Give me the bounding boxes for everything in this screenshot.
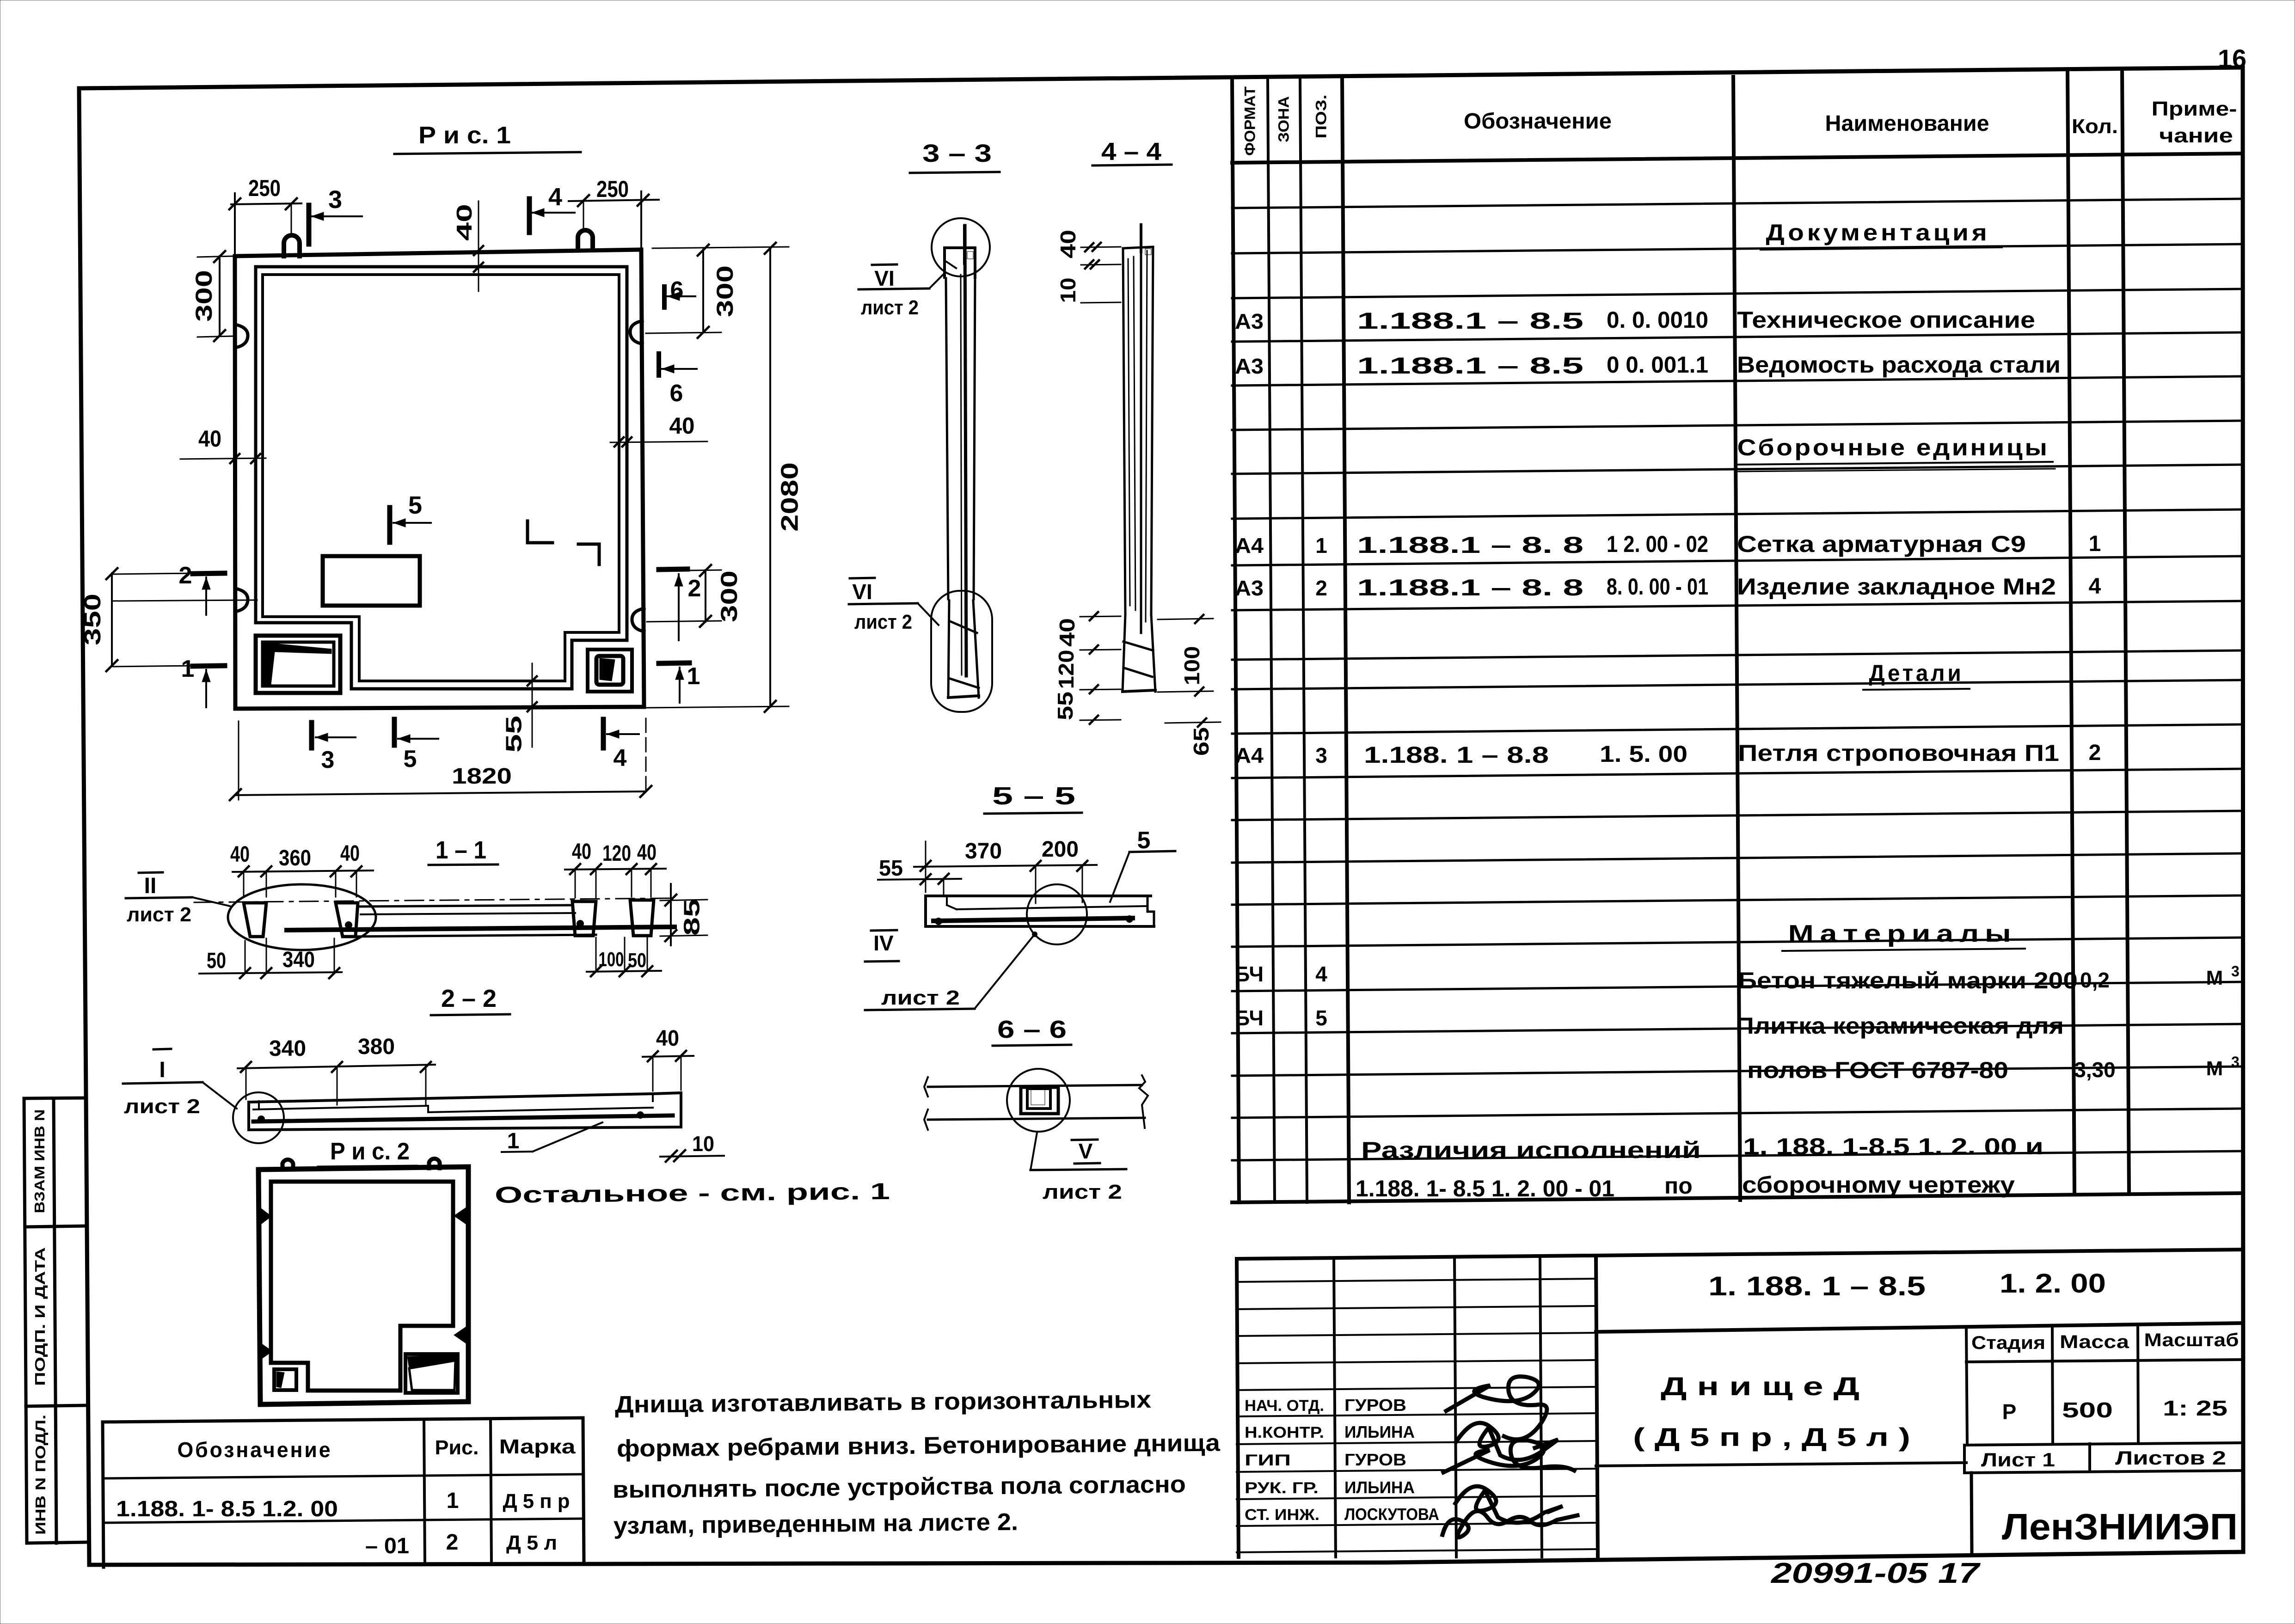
section 1-1 dims bottom-left 50 340 bbox=[199, 938, 342, 978]
slab inner wall line (wall side) bbox=[256, 267, 627, 689]
section 2-2 label 1 with leader bbox=[502, 1122, 602, 1153]
row Техническое описание bbox=[1235, 307, 2035, 334]
section 3-3 bottom boot bbox=[948, 601, 979, 698]
svg-text:500: 500 bbox=[2062, 1398, 2113, 1422]
svg-text:4 – 4: 4 – 4 bbox=[1101, 138, 1161, 165]
svg-text:лист 2: лист 2 bbox=[124, 1095, 200, 1118]
svg-text:3: 3 bbox=[2231, 1054, 2240, 1070]
section 5-5 rebar dots bbox=[935, 918, 942, 925]
note text line 2 bbox=[617, 1429, 1221, 1462]
wall notch right upper bbox=[630, 321, 642, 344]
svg-text:5: 5 bbox=[404, 746, 417, 772]
section 4-4 dim 40 bottom bbox=[1055, 612, 1121, 654]
svg-text:ФОРМАТ: ФОРМАТ bbox=[1241, 86, 1258, 156]
svg-text:ЛОСКУТОВА: ЛОСКУТОВА bbox=[1344, 1505, 1439, 1524]
svg-text:360: 360 bbox=[279, 846, 311, 870]
section 3-3 top rebar bbox=[963, 226, 966, 264]
svg-text:65: 65 bbox=[1189, 727, 1213, 756]
svg-text:Петля строповочная П1: Петля строповочная П1 bbox=[1738, 740, 2059, 766]
section 1-1 title bbox=[429, 836, 498, 865]
svg-text:БЧ: БЧ bbox=[1235, 962, 1264, 986]
section 5-5 slab profile bbox=[926, 896, 1154, 926]
svg-text:Остальное - см. рис. 1: Остальное - см. рис. 1 bbox=[495, 1178, 890, 1208]
svg-text:1.188.1 – 8. 8: 1.188.1 – 8. 8 bbox=[1357, 532, 1583, 558]
svg-text:1: 1 bbox=[181, 656, 195, 682]
Рис.2 note Остальное см. рис.1 bbox=[495, 1178, 890, 1208]
section 1-1 dim 85 right bbox=[660, 884, 707, 945]
dimension 300 right-upper bbox=[646, 245, 738, 338]
svg-text:лист 2: лист 2 bbox=[854, 611, 912, 633]
section heading Материалы bbox=[1782, 920, 2025, 951]
svg-text:1: 1 bbox=[507, 1129, 520, 1153]
section 3-3 title bbox=[910, 140, 1000, 173]
svg-text:40: 40 bbox=[198, 426, 221, 452]
svg-text:Р и с. 2: Р и с. 2 bbox=[330, 1138, 410, 1165]
section 6-6 detail circle V bbox=[1007, 1069, 1070, 1132]
svg-text:М: М bbox=[2206, 1057, 2223, 1080]
dimension 40 left wall bbox=[180, 426, 266, 463]
row Плитка керамическая для bbox=[1235, 1006, 2064, 1039]
section 6-6 label V лист 2 bbox=[1031, 1133, 1126, 1203]
Рис.2 opening bottom-right bbox=[405, 1354, 458, 1393]
section heading Сборочные единицы bbox=[1736, 435, 2055, 472]
section marker 1 right bbox=[659, 663, 700, 703]
svg-text:ГУРОВ: ГУРОВ bbox=[1344, 1450, 1406, 1469]
svg-text:Приме-: Приме- bbox=[2152, 98, 2237, 120]
section 4-4 title bbox=[1092, 138, 1172, 165]
svg-text:Сборочные единицы: Сборочные единицы bbox=[1737, 435, 2050, 460]
Рис.2 title bbox=[318, 1138, 417, 1167]
section marker 3 bottom bbox=[312, 723, 356, 773]
section heading Детали bbox=[1863, 660, 1970, 690]
dimension 40 right wall bbox=[610, 413, 707, 447]
title block Лист 1 / Листов 2 bbox=[1964, 1443, 2243, 1473]
svg-text:55: 55 bbox=[1053, 692, 1077, 720]
svg-text:1. 188. 1 – 8.5: 1. 188. 1 – 8.5 bbox=[1708, 1271, 1926, 1301]
Рис.2 wall mark right-upper bbox=[454, 1207, 467, 1225]
svg-text:лист 2: лист 2 bbox=[881, 987, 960, 1009]
title block outline bbox=[1237, 1250, 2243, 1557]
title block Стадия Масса Масштаб bbox=[1966, 1327, 2243, 1445]
svg-text:Ведомость расхода стали: Ведомость расхода стали bbox=[1737, 352, 2061, 378]
section 1-1 right wall rib bbox=[572, 901, 596, 936]
svg-text:ПОЗ.: ПОЗ. bbox=[1313, 95, 1329, 139]
section marker 4 top bbox=[529, 183, 575, 233]
svg-text:ЛенЗНИИЭП: ЛенЗНИИЭП bbox=[2002, 1506, 2238, 1547]
svg-text:250: 250 bbox=[596, 176, 629, 202]
svg-text:ИЛЬИНА: ИЛЬИНА bbox=[1344, 1478, 1415, 1497]
svg-text:Масса: Масса bbox=[2060, 1332, 2129, 1352]
section 1-1 dims top-right 40 120 40 bbox=[565, 840, 666, 898]
svg-text:6: 6 bbox=[670, 380, 683, 407]
svg-text:ГИП: ГИП bbox=[1245, 1452, 1291, 1469]
svg-text:Марка: Марка bbox=[499, 1435, 576, 1458]
margin strip box Взам.инв.N bbox=[24, 1098, 85, 1543]
section 4-4 dim 100 right bbox=[1158, 615, 1213, 696]
section 2-2 mesh line bbox=[253, 1115, 673, 1121]
section 1-1 second rib bbox=[336, 903, 358, 937]
section 4-4 dim 65 right bbox=[1165, 718, 1221, 756]
tile zone corner mark 1 bbox=[528, 521, 552, 543]
svg-text:1 2. 00 - 02: 1 2. 00 - 02 bbox=[1607, 531, 1708, 557]
row Изделие закладное Мн2 bbox=[1235, 574, 2101, 601]
svg-text:10: 10 bbox=[1056, 278, 1080, 303]
svg-text:лист 2: лист 2 bbox=[1043, 1181, 1122, 1203]
svg-text:1.188. 1 – 8.8: 1.188. 1 – 8.8 bbox=[1364, 742, 1549, 768]
section heading Документация bbox=[1761, 220, 2002, 250]
svg-text:1.188.1 – 8.5: 1.188.1 – 8.5 bbox=[1357, 353, 1583, 379]
section 5-5 title bbox=[984, 782, 1082, 814]
svg-text:РУК. ГР.: РУК. ГР. bbox=[1245, 1479, 1319, 1497]
svg-text:55: 55 bbox=[879, 856, 903, 881]
section marker 3 top bbox=[309, 186, 362, 244]
dimension 40 top-center bbox=[452, 201, 483, 291]
row Бетон тяжелый марки 200 bbox=[1235, 962, 2240, 993]
svg-text:Рис.: Рис. bbox=[435, 1436, 479, 1459]
svg-text:2: 2 bbox=[446, 1530, 459, 1555]
svg-text:Р и с. 1: Р и с. 1 bbox=[418, 122, 511, 149]
Рис.2 inner outline with steps bbox=[271, 1182, 453, 1391]
section 4-4 dim 40 top bbox=[1056, 230, 1121, 258]
svg-text:1.188.1 – 8.5: 1.188.1 – 8.5 bbox=[1357, 308, 1583, 334]
svg-text:формах ребрами вниз. Бетон: формах ребрами вниз. Бетонирование днища bbox=[617, 1429, 1221, 1462]
svg-text:1. 2. 00: 1. 2. 00 bbox=[2000, 1269, 2106, 1299]
svg-text:сборочному чертежу: сборочному чертежу bbox=[1742, 1172, 2015, 1198]
svg-text:5 – 5: 5 – 5 bbox=[992, 782, 1075, 810]
section 5-5 label IV лист 2 bbox=[865, 930, 1037, 1010]
svg-text:10: 10 bbox=[692, 1132, 714, 1156]
svg-text:1 – 1: 1 – 1 bbox=[436, 836, 486, 864]
svg-text:2 – 2: 2 – 2 bbox=[441, 985, 497, 1012]
tile zone corner mark 2 bbox=[578, 544, 599, 564]
opening bottom-left inner bbox=[263, 642, 334, 686]
svg-text:А3: А3 bbox=[1235, 354, 1264, 378]
svg-text:3: 3 bbox=[2231, 963, 2240, 980]
section 1-1 label II лист 2 bbox=[126, 872, 230, 926]
section 3-3 top cap bbox=[945, 248, 975, 277]
svg-text:300: 300 bbox=[712, 265, 738, 317]
svg-text:300: 300 bbox=[716, 570, 742, 622]
Рис.2 wall mark right-lower bbox=[454, 1326, 467, 1344]
svg-text:А3: А3 bbox=[1235, 576, 1264, 600]
svg-text:2080: 2080 bbox=[777, 462, 804, 532]
section marker 5 middle bbox=[390, 491, 431, 542]
svg-text:выполнять после устройства: выполнять после устройства пола согласно bbox=[613, 1471, 1186, 1503]
section 1-1 rebar dots bbox=[345, 921, 352, 929]
svg-text:5: 5 bbox=[408, 491, 422, 519]
section 6-6 embedded item МН2 bbox=[1021, 1087, 1058, 1114]
svg-text:А4: А4 bbox=[1235, 743, 1264, 767]
section 3-3 top detail circle bbox=[932, 218, 990, 276]
dimension 55 bottom bbox=[502, 663, 537, 753]
svg-text:0. 0. 0010: 0. 0. 0010 bbox=[1607, 307, 1708, 333]
opening bottom-right inner bbox=[596, 656, 623, 685]
svg-text:4: 4 bbox=[614, 745, 627, 772]
dimension 250 top-left bbox=[229, 175, 301, 255]
section 2-2 label I лист 2 bbox=[123, 1049, 237, 1118]
svg-text:40: 40 bbox=[669, 413, 695, 439]
svg-text:200: 200 bbox=[1042, 837, 1079, 862]
svg-text:1: 1 bbox=[447, 1489, 459, 1513]
svg-text:350: 350 bbox=[80, 594, 105, 645]
opening bottom-left outer bbox=[256, 636, 340, 693]
section 3-3 label VI upper bbox=[859, 264, 944, 319]
Рис.1 title bbox=[394, 122, 581, 154]
svg-text:1.188. 1- 8.5 1.2. 00: 1.188. 1- 8.5 1.2. 00 bbox=[116, 1497, 338, 1521]
section 4-4 top rod bbox=[1140, 225, 1142, 252]
Рис.2 outer outline bbox=[258, 1167, 468, 1404]
section 2-2 slab outline bbox=[249, 1093, 681, 1130]
section 4-4 dim 120 bottom bbox=[1054, 650, 1121, 694]
svg-text:2: 2 bbox=[179, 562, 192, 589]
slab outer outline bbox=[235, 250, 644, 709]
svg-text:Обозначение: Обозначение bbox=[178, 1438, 332, 1462]
title block organization ЛенЗНИИЭП bbox=[1971, 1473, 2238, 1552]
svg-text:Документация: Документация bbox=[1766, 220, 1990, 245]
svg-text:ВЗАМ ИНВ N: ВЗАМ ИНВ N bbox=[31, 1109, 48, 1213]
title block left grid bbox=[1237, 1259, 1596, 1557]
svg-text:I: I bbox=[159, 1058, 165, 1082]
note row по сборочному чертежу bbox=[1356, 1172, 2015, 1201]
svg-text:Листов 2: Листов 2 bbox=[2115, 1447, 2226, 1469]
margin strip box Подп. и дата bbox=[26, 1247, 86, 1406]
section marker 4 bottom bbox=[603, 719, 639, 772]
handwritten archive number 20991-05 17 bbox=[1771, 1557, 1981, 1589]
section 3-3 bottom detail stadium bbox=[931, 591, 992, 712]
svg-text:Д 5 л: Д 5 л bbox=[506, 1532, 557, 1554]
svg-text:1820: 1820 bbox=[452, 764, 512, 789]
section 4-4 dim 10 top bbox=[1056, 260, 1121, 303]
Рис.2 wall mark left-upper bbox=[260, 1207, 271, 1225]
section 1-1 dims bottom-right 100 50 bbox=[587, 938, 661, 976]
section marker 5 bottom bbox=[394, 719, 438, 772]
section 2-2 dim 40 right bbox=[643, 1026, 693, 1091]
section 2-2 rebar dots bbox=[258, 1115, 265, 1123]
svg-text:чание: чание bbox=[2159, 124, 2233, 147]
svg-text:3: 3 bbox=[1315, 743, 1327, 767]
svg-text:40: 40 bbox=[452, 204, 476, 241]
svg-text:Днища изготавливать в гори: Днища изготавливать в горизонтальных bbox=[615, 1386, 1152, 1418]
section 5-5 label 5 with leader bbox=[1110, 827, 1175, 902]
svg-text:50: 50 bbox=[207, 949, 226, 973]
section 2-2 dim 10 bbox=[660, 1132, 724, 1162]
note text line 1 bbox=[615, 1386, 1152, 1418]
svg-text:340: 340 bbox=[269, 1036, 306, 1061]
svg-text:1. 188. 1-8.5 1. 2. 00 и: 1. 188. 1-8.5 1. 2. 00 и bbox=[1743, 1134, 2043, 1159]
Рис.2 wall mark left-lower bbox=[260, 1342, 272, 1360]
svg-text:Различия исполнений: Различия исполнений bbox=[1361, 1137, 1701, 1163]
svg-text:Сетка арматурная С9: Сетка арматурная С9 bbox=[1737, 531, 2026, 557]
opening bottom-left black corner bbox=[264, 643, 331, 685]
wall notch right lower bbox=[632, 608, 644, 631]
svg-text:370: 370 bbox=[965, 839, 1002, 864]
svg-text:НАЧ. ОТД.: НАЧ. ОТД. bbox=[1245, 1397, 1324, 1415]
svg-text:лист 2: лист 2 bbox=[861, 296, 919, 319]
section cut line through left lower notch bbox=[113, 600, 257, 601]
section 5-5 detail circle IV bbox=[1027, 884, 1087, 944]
svg-text:ИНВ N ПОДЛ.: ИНВ N ПОДЛ. bbox=[32, 1415, 49, 1535]
svg-text:ПОДП. И ДАТА: ПОДП. И ДАТА bbox=[32, 1247, 48, 1386]
svg-text:БЧ: БЧ bbox=[1235, 1006, 1264, 1030]
spec table grid bbox=[1232, 69, 2243, 1202]
title block values Р 500 1:25 bbox=[2002, 1396, 2227, 1424]
dimension 2080 right bbox=[647, 243, 804, 712]
svg-text:40: 40 bbox=[656, 1026, 679, 1051]
svg-text:40: 40 bbox=[1055, 618, 1079, 647]
svg-text:Детали: Детали bbox=[1869, 660, 1964, 686]
opening bottom-right outer bbox=[588, 650, 632, 692]
svg-text:ИЛЬИНА: ИЛЬИНА bbox=[1344, 1422, 1415, 1441]
section 2-2 title bbox=[431, 985, 510, 1015]
margin strip box Инв.N подл. bbox=[27, 1415, 87, 1543]
signatures scribbles bbox=[1442, 1377, 1577, 1538]
slab inner wall line (cavity side) bbox=[263, 275, 619, 681]
svg-text:Лист 1: Лист 1 bbox=[1981, 1449, 2055, 1471]
wall notch left lower bbox=[235, 588, 248, 612]
section 5-5 dims 370 200 bbox=[914, 837, 1097, 903]
svg-text:V: V bbox=[1079, 1139, 1093, 1163]
svg-text:300: 300 bbox=[191, 270, 217, 322]
Рис.2 opening bottom-left bbox=[274, 1369, 296, 1390]
wall notch left upper bbox=[235, 325, 248, 348]
section 1-1 slab lines bbox=[287, 905, 675, 937]
svg-text:0,2: 0,2 bbox=[2080, 968, 2110, 992]
svg-text:Изделие закладное Мн2: Изделие закладное Мн2 bbox=[1737, 574, 2056, 600]
section 6-6 band bbox=[924, 1075, 1148, 1130]
dimension 300 right-lower bbox=[647, 565, 742, 627]
svg-text:Стадия: Стадия bbox=[1971, 1333, 2045, 1353]
section 3-3 label VI lower bbox=[849, 578, 939, 633]
svg-text:120: 120 bbox=[1054, 650, 1078, 689]
section 1-1 edge rib bbox=[630, 900, 654, 936]
svg-text:А4: А4 bbox=[1235, 533, 1264, 558]
svg-text:Масштаб: Масштаб bbox=[2144, 1330, 2239, 1350]
dimension 1820 bottom bbox=[230, 718, 651, 800]
svg-text:полов ГОСТ 6787-80: полов ГОСТ 6787-80 bbox=[1747, 1057, 2008, 1083]
svg-text:1: 1 bbox=[687, 663, 700, 690]
svg-text:СТ. ИНЖ.: СТ. ИНЖ. bbox=[1245, 1506, 1319, 1524]
note row Различия исполнений bbox=[1361, 1134, 2043, 1163]
section marker 1 left bbox=[181, 656, 225, 707]
svg-text:ГУРОВ: ГУРОВ bbox=[1344, 1396, 1406, 1415]
Рис.2 lifting loop right bbox=[429, 1158, 440, 1168]
svg-text:0 0. 001.1: 0 0. 001.1 bbox=[1607, 352, 1708, 378]
svg-text:Кол.: Кол. bbox=[2072, 115, 2118, 138]
note text line 4 bbox=[614, 1509, 1019, 1539]
section 4-4 boot bbox=[1123, 615, 1155, 692]
section 1-1 axis dash line bbox=[194, 898, 669, 902]
svg-text:Р: Р bbox=[2002, 1400, 2017, 1424]
svg-text:50: 50 bbox=[628, 949, 646, 972]
row полов ГОСТ 6787-80 bbox=[1747, 1054, 2240, 1083]
section marker 6 right-lower bbox=[659, 354, 697, 407]
svg-text:40: 40 bbox=[340, 841, 360, 866]
svg-text:40: 40 bbox=[637, 840, 657, 865]
section 2-2 dims 340 380 bbox=[238, 1035, 435, 1106]
svg-text:1. 5. 00: 1. 5. 00 bbox=[1600, 741, 1687, 767]
section 6-6 title bbox=[993, 1016, 1071, 1046]
svg-text:– 01: – 01 bbox=[365, 1534, 409, 1558]
svg-text:8. 0. 00 - 01: 8. 0. 00 - 01 bbox=[1607, 574, 1708, 600]
note text line 3 bbox=[613, 1471, 1186, 1503]
svg-text:Наименование: Наименование bbox=[1825, 111, 1989, 136]
svg-text:4: 4 bbox=[548, 183, 562, 211]
svg-text:4: 4 bbox=[2089, 574, 2101, 599]
svg-text:3: 3 bbox=[328, 186, 342, 214]
svg-text:250: 250 bbox=[248, 175, 281, 201]
svg-text:4: 4 bbox=[1315, 962, 1327, 986]
svg-text:100: 100 bbox=[599, 948, 624, 971]
svg-text:1: 1 bbox=[2089, 532, 2101, 556]
svg-text:Плитка керамическая для: Плитка керамическая для bbox=[1736, 1013, 2064, 1039]
section 2-2 floor inner lines bbox=[253, 1101, 653, 1112]
section 1-1 left rib bbox=[244, 903, 266, 937]
row Ведомость расхода стали bbox=[1235, 352, 2061, 379]
dimension 350 left bbox=[80, 568, 194, 671]
lifting loop left bbox=[284, 235, 300, 256]
svg-text:Н.КОНТР.: Н.КОНТР. bbox=[1245, 1424, 1324, 1441]
svg-text:Д 5 п р: Д 5 п р bbox=[503, 1490, 570, 1513]
svg-text:1: 25: 1: 25 bbox=[2163, 1396, 2227, 1420]
svg-text:1.188. 1- 8.5 1. 2. 00 - 01: 1.188. 1- 8.5 1. 2. 00 - 01 bbox=[1356, 1176, 1614, 1201]
section 2-2 detail circle I bbox=[233, 1092, 284, 1143]
svg-text:55: 55 bbox=[502, 716, 527, 753]
svg-text:1.188.1 – 8. 8: 1.188.1 – 8. 8 bbox=[1357, 575, 1583, 601]
Рис.2 lifting loop left bbox=[282, 1159, 293, 1170]
svg-text:Техническое описание: Техническое описание bbox=[1737, 307, 2035, 333]
title block signature rows bbox=[1245, 1396, 1439, 1524]
svg-text:5: 5 bbox=[1137, 827, 1151, 854]
svg-text:VI: VI bbox=[874, 266, 894, 290]
svg-text:3: 3 bbox=[321, 747, 335, 773]
designation table grid bbox=[103, 1418, 584, 1567]
svg-text:по: по bbox=[1664, 1173, 1693, 1199]
section 4-4 body bbox=[1123, 247, 1153, 633]
designation table headers bbox=[178, 1435, 576, 1462]
svg-text:5: 5 bbox=[1315, 1006, 1327, 1030]
svg-text:Бетон тяжелый марки 200: Бетон тяжелый марки 200 bbox=[1738, 968, 2078, 993]
designation row -01 / 2 / Д5л bbox=[365, 1530, 557, 1558]
svg-text:ЗОНА: ЗОНА bbox=[1275, 96, 1292, 142]
designation row 1.188.1-8.5 1.2.00 / 1 / Д5пр bbox=[116, 1489, 570, 1521]
svg-text:IV: IV bbox=[873, 931, 894, 955]
section 5-5 dim 55 bbox=[878, 856, 961, 895]
svg-text:120: 120 bbox=[602, 841, 631, 866]
svg-text:VI: VI bbox=[852, 580, 872, 604]
row Петля строповочная П1 bbox=[1235, 740, 2101, 768]
svg-text:6 – 6: 6 – 6 bbox=[997, 1016, 1067, 1043]
svg-text:лист 2: лист 2 bbox=[127, 903, 191, 926]
svg-text:85: 85 bbox=[680, 899, 705, 936]
section 3-3 body lines bbox=[946, 226, 975, 676]
lifting loop right bbox=[578, 230, 593, 250]
svg-text:1: 1 bbox=[1315, 533, 1327, 558]
svg-text:Д н и щ е Д: Д н и щ е Д bbox=[1661, 1372, 1859, 1401]
svg-text:2: 2 bbox=[688, 575, 701, 602]
row Сетка арматурная С9 bbox=[1235, 531, 2101, 558]
section marker 2 left bbox=[179, 562, 225, 615]
svg-text:Материалы: Материалы bbox=[1788, 920, 2017, 947]
svg-text:узлам, приведенным на лист: узлам, приведенным на листе 2. bbox=[614, 1509, 1019, 1539]
section 1-1 detail oval II bbox=[228, 884, 376, 950]
svg-text:3,30: 3,30 bbox=[2074, 1058, 2116, 1082]
svg-text:М: М bbox=[2206, 967, 2223, 989]
svg-text:100: 100 bbox=[1180, 646, 1204, 686]
section marker 2 right bbox=[659, 569, 701, 640]
section marker 6 right-upper bbox=[664, 277, 695, 307]
section 4-4 dim 55 bottom bbox=[1053, 692, 1121, 724]
svg-text:380: 380 bbox=[358, 1035, 395, 1059]
